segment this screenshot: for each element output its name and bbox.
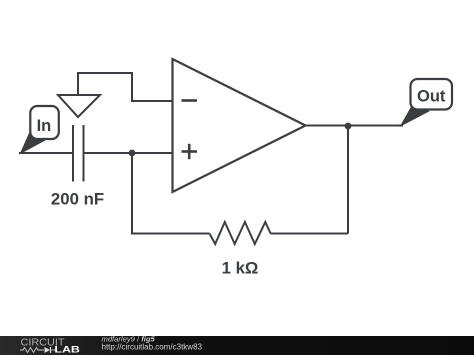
wire input from In tail to capacitor — [19, 152, 72, 154]
wire capacitor to op-amp plus input — [84, 152, 173, 154]
svg-text:200 nF: 200 nF — [51, 190, 104, 209]
op-amp U1 — [173, 59, 306, 192]
svg-text:Out: Out — [417, 87, 446, 105]
node In label — [20, 106, 59, 155]
ground symbol — [58, 95, 100, 117]
junction node A dot — [129, 150, 136, 157]
wire feedback bottom left lead and up to node A — [132, 153, 210, 234]
svg-text:In: In — [37, 117, 52, 135]
wire op-amp output — [305, 125, 403, 127]
footer bar — [0, 336, 474, 355]
wire ground to op-amp minus input — [78, 73, 173, 101]
capacitor C1 plates — [72, 125, 74, 182]
CircuitLab logo schematic motif — [20, 348, 56, 353]
junction output node dot — [345, 123, 352, 130]
resistor R1 zigzag — [210, 222, 271, 244]
svg-text:1 kΩ: 1 kΩ — [222, 259, 259, 278]
wire feedback vertical right — [347, 126, 349, 234]
node Out label — [400, 79, 453, 127]
svg-text:http://circuitlab.com/c3tkw83: http://circuitlab.com/c3tkw83 — [102, 343, 203, 352]
wire feedback bottom right lead — [271, 233, 349, 235]
svg-text:LAB: LAB — [54, 345, 80, 355]
